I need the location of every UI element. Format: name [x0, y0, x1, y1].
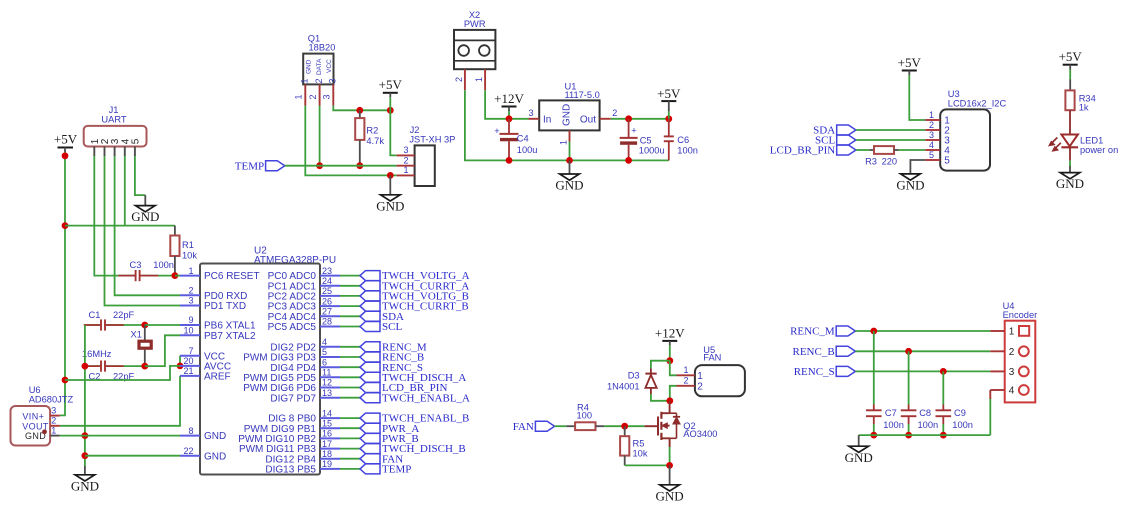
net label RENC_S [794, 366, 856, 378]
svg-text:9: 9 [188, 315, 193, 325]
wire J1.5 to GND [135, 156, 145, 195]
svg-text:LCD16x2_I2C: LCD16x2_I2C [948, 98, 1007, 108]
svg-text:FAN: FAN [513, 421, 534, 433]
svg-text:+5V: +5V [54, 132, 78, 147]
wire [340, 458, 360, 460]
net label LCD_BR_PIN [770, 145, 856, 157]
power +12V (U1) [494, 91, 524, 111]
svg-text:2: 2 [612, 108, 617, 118]
capacitor C3 100n [118, 260, 174, 282]
net label RENC_B [793, 346, 856, 358]
svg-text:+: + [631, 125, 636, 135]
svg-text:26: 26 [322, 296, 332, 306]
svg-text:C1: C1 [89, 310, 101, 320]
resistor R4 100 [566, 402, 604, 430]
wire X2.1 to U1 In [485, 90, 528, 119]
resistor R1 10k [170, 236, 197, 261]
wire R5 bottom lead [624, 456, 626, 466]
svg-text:1: 1 [1009, 327, 1015, 338]
svg-text:100u: 100u [517, 145, 538, 155]
wire GND to U2 pin22 [85, 455, 180, 457]
ground (under J1) [131, 206, 159, 225]
svg-text:1: 1 [294, 94, 304, 99]
net label LCD_BR_PIN [360, 382, 447, 394]
wire +5V rail under J1 [65, 225, 175, 227]
pin 17 PWM DIG11 PB3 [239, 439, 340, 455]
wire RENC_B [855, 350, 990, 352]
wire [340, 387, 360, 389]
junction GND pin22 rail [82, 452, 89, 459]
svg-text:18: 18 [322, 449, 332, 459]
svg-text:10k: 10k [633, 448, 648, 458]
svg-text:GND: GND [896, 178, 924, 193]
svg-text:3: 3 [528, 108, 533, 118]
wire [340, 356, 360, 358]
svg-text:100: 100 [577, 411, 593, 421]
pin 20 AVCC [180, 356, 231, 372]
svg-text:C9: C9 [954, 408, 966, 418]
capacitor C2 22pF [84, 360, 135, 382]
net label TWCH_ENABL_B [360, 413, 469, 425]
junction R2 bottom / TEMP [356, 162, 363, 169]
svg-text:GND: GND [71, 478, 99, 493]
capacitor C9 100n [936, 405, 973, 431]
junction gate/R5 [621, 423, 628, 430]
svg-text:3: 3 [929, 130, 934, 140]
wire encoder GND rail [859, 434, 991, 436]
wire RENC_S [855, 370, 990, 372]
encoder U4 [990, 301, 1037, 403]
wire [340, 437, 360, 439]
svg-text:R3: R3 [865, 157, 877, 167]
microcontroller U2 ATMEGA328P-PU [200, 246, 336, 475]
svg-text:R2: R2 [366, 126, 378, 136]
svg-text:4: 4 [929, 140, 934, 150]
resistor R34 1k [1065, 90, 1095, 112]
svg-text:X1: X1 [131, 330, 142, 340]
svg-text:UART: UART [101, 115, 126, 125]
svg-text:2: 2 [51, 415, 56, 425]
net label FAN [513, 421, 555, 433]
svg-text:100n: 100n [883, 420, 904, 430]
net label PWR_B [360, 433, 419, 445]
svg-text:15: 15 [322, 418, 332, 428]
ground (power) [555, 174, 583, 193]
svg-text:3: 3 [403, 145, 408, 155]
wire [873, 424, 875, 435]
svg-text:3: 3 [328, 78, 338, 83]
transistor Q2 AO3400 [645, 401, 718, 447]
wire SDA [856, 129, 925, 131]
svg-text:+12V: +12V [655, 325, 685, 340]
svg-text:1: 1 [188, 266, 193, 276]
junction C8 bottom [905, 432, 912, 439]
wire U5.2 down [670, 386, 677, 401]
svg-text:3: 3 [322, 94, 332, 99]
pin 25 PC2 ADC2 [268, 286, 340, 302]
pin 23 PC0 ADC0 [268, 266, 340, 282]
wire to R3 [856, 149, 870, 151]
wire gnd stub J1 [144, 195, 146, 206]
wire SCL [856, 139, 925, 141]
wire gnd stub U1 [569, 160, 571, 174]
svg-text:R1: R1 [182, 240, 194, 250]
svg-text:22: 22 [183, 446, 193, 456]
wire R34 top lead [1069, 80, 1071, 91]
svg-text:GND: GND [131, 209, 159, 224]
wire Q1 DATA down [319, 106, 321, 166]
junction C4 top [506, 115, 513, 122]
svg-text:1: 1 [697, 371, 703, 382]
wire +5V vertical to U6 VIN+ [60, 152, 65, 415]
pin 4 DIG2 PD2 [270, 337, 340, 353]
pin 9 PB6 XTAL1 [180, 315, 256, 331]
svg-text:19: 19 [322, 459, 332, 469]
capacitor C4 100u [494, 119, 537, 161]
wire source down [669, 447, 671, 465]
resistor R2 4.7k [355, 118, 384, 146]
svg-text:16: 16 [322, 429, 332, 439]
wire R2 leads [359, 110, 361, 118]
wire [340, 397, 360, 399]
wire [942, 424, 944, 435]
svg-text:DATA: DATA [316, 58, 323, 75]
junction +12V fan node [666, 357, 673, 364]
ground (left column) [71, 475, 99, 494]
svg-text:D3: D3 [628, 371, 640, 381]
svg-text:C8: C8 [919, 408, 931, 418]
svg-text:PB7 XTAL2: PB7 XTAL2 [204, 331, 256, 342]
capacitor C5 1000u [620, 119, 665, 161]
wire gnd stub encoder [858, 435, 860, 446]
svg-text:2: 2 [454, 77, 464, 82]
svg-text:3: 3 [188, 296, 193, 306]
svg-text:1117-5.0: 1117-5.0 [565, 90, 600, 100]
capacitor C1 22pF [84, 310, 135, 332]
pin 26 PC3 ADC3 [268, 296, 340, 312]
power +5V (LED) [1059, 49, 1083, 70]
pin 15 PWM DIG9 PB1 [244, 418, 340, 434]
svg-text:+5V: +5V [1059, 49, 1083, 64]
wire [340, 448, 360, 450]
svg-text:VCC: VCC [326, 59, 333, 73]
junction C7 bottom [870, 432, 877, 439]
junction RESET node [172, 272, 179, 279]
net label SCL [360, 321, 402, 333]
wire C3 to RESET [175, 275, 180, 277]
svg-text:DIG7 PD7: DIG7 PD7 [270, 393, 316, 404]
svg-text:13: 13 [322, 388, 332, 398]
wire R2 bottom lead [359, 140, 361, 166]
svg-text:2: 2 [403, 156, 408, 166]
temp sensor Q1 18B20 [294, 34, 338, 106]
ground (LED) [1056, 173, 1084, 192]
wire [340, 427, 360, 429]
svg-text:4.7k: 4.7k [366, 136, 384, 146]
net label TWCH_DISCH_B [360, 443, 466, 455]
wire +12V stub [508, 111, 510, 119]
wire [340, 305, 360, 307]
net label TEMP [235, 160, 285, 172]
svg-text:PWR: PWR [464, 19, 486, 29]
svg-text:Encoder: Encoder [1003, 310, 1038, 320]
junction R2 top [356, 107, 363, 114]
wire [1069, 160, 1071, 166]
svg-text:2: 2 [683, 376, 688, 386]
wire GND vertical (left) [84, 325, 86, 466]
svg-text:C7: C7 [885, 408, 897, 418]
wire GND rail (power) [465, 90, 669, 160]
pin 21 AREF [180, 366, 231, 382]
wire [340, 376, 360, 378]
junction source/GND [666, 462, 673, 469]
regulator U1 1117-5.0 [528, 82, 617, 146]
wire J1.1 to C3 [94, 156, 175, 275]
svg-text:power on: power on [1080, 145, 1118, 155]
svg-text:VIN+: VIN+ [22, 412, 44, 422]
svg-text:LCD_BR_PIN: LCD_BR_PIN [770, 145, 835, 157]
svg-text:Out: Out [580, 114, 596, 125]
svg-text:DIG13 PB5: DIG13 PB5 [265, 465, 316, 476]
wire [340, 315, 360, 317]
junction +5V / J1 rail [62, 222, 69, 229]
svg-text:GND: GND [845, 450, 873, 465]
capacitor C8 100n [901, 405, 938, 431]
svg-text:18B20: 18B20 [309, 43, 336, 53]
ground (encoder) [845, 446, 873, 465]
svg-text:AO3400: AO3400 [683, 429, 717, 439]
svg-text:5: 5 [944, 156, 950, 167]
junction XTAL2 node [141, 363, 148, 370]
junction +5V J2 branch [387, 107, 394, 114]
junction C8 top [905, 348, 912, 355]
pin 22 GND [180, 446, 226, 462]
svg-text:GND: GND [562, 104, 573, 126]
ground (fan) [656, 485, 684, 504]
wire to D3 cathode [651, 361, 670, 369]
svg-text:11: 11 [322, 368, 331, 378]
svg-text:JST-XH 3P: JST-XH 3P [409, 134, 455, 144]
junction +5V stub [62, 152, 69, 159]
svg-text:1N4001: 1N4001 [607, 381, 640, 391]
pin 11 PWM DIG5 PD5 [243, 368, 340, 384]
pin 12 PWM DIG6 PD6 [243, 378, 340, 394]
svg-text:TEMP: TEMP [382, 464, 411, 476]
wire Q1 GND to J2.1 [305, 106, 396, 176]
svg-text:1: 1 [403, 165, 408, 175]
diode D3 1N4001 [607, 368, 657, 394]
svg-text:2: 2 [697, 382, 703, 393]
junction C7 top [870, 328, 877, 335]
connector J1 UART [84, 105, 147, 156]
net label TWCH_ENABL_A [360, 392, 470, 404]
wire C8 vertical [908, 351, 910, 404]
wire [340, 468, 360, 470]
junction C5 top [625, 115, 632, 122]
svg-text:1000u: 1000u [639, 145, 665, 155]
svg-text:10k: 10k [182, 251, 197, 261]
pin 18 DIG12 PB4 [265, 449, 340, 465]
svg-text:2: 2 [308, 94, 318, 99]
svg-text:PC5 ADC5: PC5 ADC5 [268, 322, 317, 333]
net label RENC_M [360, 341, 427, 353]
wire R3 to U3.4 [899, 149, 926, 151]
svg-text:21: 21 [183, 366, 193, 376]
svg-text:28: 28 [322, 317, 332, 327]
wire D3 anode to drain [651, 394, 670, 401]
svg-text:16MHz: 16MHz [82, 349, 112, 359]
led LED1 power on [1049, 135, 1118, 155]
net label SDA [360, 311, 404, 323]
svg-text:+12V: +12V [494, 91, 524, 106]
svg-text:TEMP: TEMP [235, 160, 264, 172]
svg-text:5: 5 [130, 138, 141, 144]
wire R5 top lead [624, 426, 626, 436]
svg-text:220: 220 [882, 157, 898, 167]
junction C4 bottom [506, 157, 513, 164]
svg-text:8: 8 [188, 426, 193, 436]
svg-text:PD1 TXD: PD1 TXD [204, 301, 246, 312]
capacitor C6 100n [664, 119, 698, 161]
junction C9 top [940, 368, 947, 375]
net label RENC_M [790, 326, 855, 338]
net label SDA [813, 125, 856, 137]
svg-text:SCL: SCL [382, 321, 402, 333]
junction U1 GND rail [566, 157, 573, 164]
pin 16 PWM DIG10 PB2 [238, 429, 340, 445]
pin 27 PC4 ADC4 [268, 307, 340, 323]
svg-text:+5V: +5V [379, 77, 403, 92]
svg-text:5: 5 [929, 150, 934, 160]
ground (U3) [896, 174, 924, 193]
junction C2/GND [82, 363, 89, 370]
svg-text:GND: GND [656, 488, 684, 503]
svg-text:GND: GND [1056, 176, 1084, 191]
wire [340, 326, 360, 328]
svg-text:C5: C5 [640, 136, 652, 146]
pin 3 PD1 TXD [180, 296, 246, 312]
svg-text:1: 1 [300, 78, 310, 83]
net label TEMP [360, 464, 411, 476]
svg-text:3: 3 [1009, 367, 1015, 378]
svg-text:7: 7 [188, 346, 193, 356]
wire gnd stub left [84, 466, 86, 475]
svg-text:GND: GND [376, 198, 404, 213]
svg-text:FAN: FAN [703, 353, 721, 363]
junction +5V / AVCC branch [62, 377, 69, 384]
wire +5V stub [668, 111, 670, 118]
wire to PB7 XTAL2 [145, 335, 180, 366]
pin 2 PD0 RXD [180, 286, 247, 302]
svg-text:100n: 100n [952, 420, 973, 430]
svg-text:RENC_M: RENC_M [790, 326, 835, 338]
wire TEMP row [285, 165, 397, 167]
svg-text:J2: J2 [410, 125, 420, 135]
pin 6 DIG4 PD4 [270, 357, 340, 373]
svg-text:10: 10 [183, 326, 193, 336]
svg-text:1: 1 [51, 426, 56, 436]
wire pin4 red lead [989, 390, 991, 399]
wire R4 to gate [604, 425, 644, 427]
wire +12V to U5.1 [670, 361, 677, 376]
wire U1 GND down [569, 142, 571, 161]
wire gnd to C1 to XTAL1 [85, 324, 145, 326]
svg-text:1: 1 [929, 110, 934, 120]
svg-text:25: 25 [322, 286, 332, 296]
wire C7 vertical [873, 331, 875, 405]
junction J2 GND [387, 172, 394, 179]
junction C6 top [665, 115, 672, 122]
junction drain node [666, 397, 673, 404]
pin 10 PB7 XTAL2 [180, 326, 256, 342]
svg-text:GND: GND [204, 431, 226, 442]
svg-text:C6: C6 [677, 135, 689, 145]
svg-text:1k: 1k [1079, 102, 1089, 112]
svg-text:1: 1 [559, 140, 569, 145]
pin 8 GND [180, 426, 226, 442]
svg-text:6: 6 [322, 357, 327, 367]
svg-text:3: 3 [51, 405, 56, 415]
net label TWCH_CURRT_B [360, 301, 469, 313]
svg-text:GND: GND [204, 451, 226, 462]
pin 1 PC6 RESET [180, 266, 260, 282]
wire RENC_M [855, 330, 990, 332]
pin 24 PC1 ADC1 [268, 276, 340, 292]
svg-text:4: 4 [1009, 386, 1015, 397]
pin 28 PC5 ADC5 [268, 317, 340, 333]
svg-text:27: 27 [322, 307, 332, 317]
junction U6 GND rail [82, 432, 89, 439]
svg-text:100n: 100n [677, 145, 698, 155]
wire C9 vertical [942, 371, 944, 404]
svg-text:C3: C3 [130, 260, 142, 270]
svg-text:4: 4 [322, 337, 327, 347]
wire J1.3 to PD0 RXD [115, 156, 180, 295]
pin 19 DIG13 PB5 [265, 459, 340, 475]
wire AREF to U6 VOUT [60, 376, 180, 426]
wire gnd stub fan [669, 465, 671, 484]
wire +5V to U3.1 [909, 75, 925, 120]
pin 5 PWM DIG3 PD3 [243, 347, 340, 363]
svg-text:In: In [543, 114, 551, 125]
svg-text:RENC_S: RENC_S [794, 366, 835, 378]
wire encoder pin4 riser [989, 398, 991, 435]
net label FAN [360, 453, 403, 465]
wire gnd stub J2 [389, 175, 391, 194]
wire [340, 346, 360, 348]
svg-text:23: 23 [322, 266, 332, 276]
svg-text:2: 2 [314, 78, 324, 83]
wire [340, 285, 360, 287]
net label TWCH_CURRT_A [360, 280, 469, 292]
wire to PB6 XTAL1 [145, 324, 180, 326]
junction XTAL1 node [141, 322, 148, 329]
ground (under J2) [376, 195, 404, 214]
svg-text:TWCH_ENABL_A: TWCH_ENABL_A [382, 392, 470, 404]
svg-text:12: 12 [322, 378, 332, 388]
wire U3.5 to GND [910, 160, 925, 174]
wire [340, 275, 360, 277]
power +5V (U3) [898, 55, 922, 75]
pin 14 DIG 8 PB0 [268, 408, 340, 424]
svg-text:+5V: +5V [657, 86, 681, 101]
svg-text:14: 14 [322, 408, 332, 418]
wire U1 Out to +5V [611, 118, 669, 120]
svg-text:+: + [494, 126, 499, 136]
lcd connector U3 LCD16x2_I2C [925, 89, 1006, 171]
svg-text:AD680JTZ: AD680JTZ [29, 395, 74, 405]
net label TWCH_VOLTG_A [360, 270, 470, 282]
